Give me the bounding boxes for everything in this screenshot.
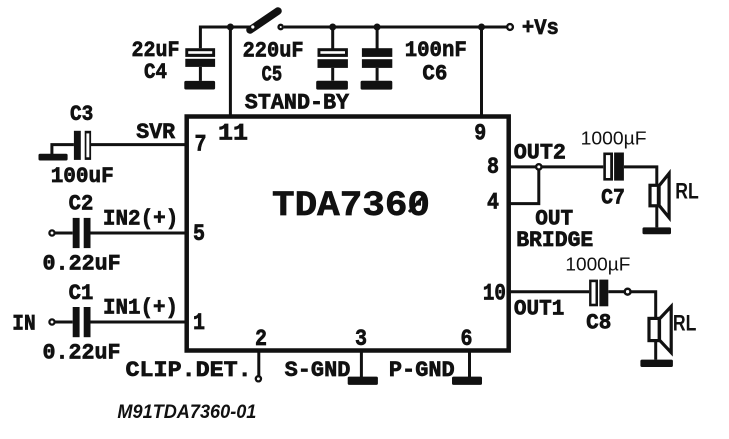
wire top rail right segment (switch to +Vs terminal)	[284, 26, 507, 29]
node OUT2 junction circle	[536, 164, 541, 169]
wire node to speaker RL2	[631, 292, 656, 360]
wire IN2 terminal to C2	[55, 232, 73, 235]
svg-text:C2: C2	[69, 192, 94, 217]
ground speaker RL2	[640, 360, 673, 367]
svg-text:6: 6	[461, 326, 473, 352]
svg-text:OUT2: OUT2	[514, 141, 566, 166]
node junction rail/C6	[374, 24, 381, 31]
svg-text:+Vs: +Vs	[522, 16, 559, 41]
svg-text:S-GND: S-GND	[285, 358, 351, 383]
label TDA7360	[272, 185, 430, 226]
speaker RL1	[650, 173, 669, 217]
wire pin 3 S-GND	[360, 350, 363, 377]
ground pin 3	[348, 377, 378, 385]
wire C6 from rail	[376, 27, 379, 49]
wire pin 6 P-GND	[468, 350, 471, 377]
wire pin 10 OUT1	[509, 290, 589, 293]
node OUT1 circle	[625, 289, 631, 295]
node IN2 terminal	[49, 230, 54, 235]
node junction rail/C4/pin11	[227, 24, 234, 31]
capacitor C8	[589, 280, 608, 307]
svg-text:11: 11	[218, 121, 248, 147]
wire C1 to pin 1	[91, 321, 188, 324]
svg-text:8: 8	[487, 154, 499, 180]
node IN1 terminal	[49, 319, 54, 324]
svg-text:IN2(+): IN2(+)	[103, 206, 178, 231]
svg-text:1: 1	[193, 310, 205, 336]
svg-text:IN1(+): IN1(+)	[103, 296, 178, 321]
node +Vs terminal	[507, 24, 513, 30]
svg-text:1000µF: 1000µF	[565, 254, 630, 275]
wire pin 2 CLIP.DET.	[257, 350, 260, 376]
capacitor C2	[73, 218, 91, 248]
svg-text:IN: IN	[12, 311, 35, 336]
svg-text:0.22uF: 0.22uF	[43, 252, 121, 277]
svg-text:C7: C7	[601, 185, 625, 210]
svg-text:CLIP.DET.: CLIP.DET.	[126, 358, 252, 383]
wire pin 4 to OUT2 node	[509, 167, 539, 204]
svg-text:220uF: 220uF	[243, 39, 304, 64]
svg-text:2: 2	[255, 326, 267, 352]
ground speaker RL1	[643, 227, 672, 234]
svg-text:C4: C4	[144, 60, 167, 85]
svg-text:7: 7	[195, 132, 207, 158]
wire C7 to speaker RL1	[624, 167, 657, 228]
wire C2 to pin 5	[91, 232, 188, 235]
svg-text:M91TDA7360-01: M91TDA7360-01	[117, 401, 256, 423]
speaker RL2	[649, 306, 671, 352]
svg-text:OUT1: OUT1	[514, 297, 564, 322]
svg-text:C5: C5	[262, 63, 283, 88]
svg-text:3: 3	[355, 326, 367, 352]
capacitor C6	[362, 48, 392, 80]
wire pin 9 from rail to IC top	[480, 27, 483, 116]
wire C5 from rail	[331, 27, 334, 49]
capacitor C4	[185, 48, 215, 81]
wire pin 11 from rail to IC top	[229, 27, 232, 116]
wire pin 7 SVR input	[91, 143, 187, 146]
svg-text:RL: RL	[673, 310, 697, 335]
svg-text:9: 9	[474, 121, 486, 147]
node junction rail/C5	[329, 24, 336, 31]
svg-text:10: 10	[483, 281, 506, 307]
svg-text:P-GND: P-GND	[389, 358, 455, 383]
svg-text:100nF: 100nF	[405, 38, 467, 63]
svg-text:BRIDGE: BRIDGE	[516, 228, 593, 253]
capacitor C7	[603, 153, 624, 181]
wire C8 to node	[608, 290, 624, 293]
svg-text:TDA7360: TDA7360	[272, 185, 430, 226]
capacitor C3	[74, 131, 91, 160]
wire C3 to ground	[52, 145, 74, 155]
op-amp U1 TDA7360 IC body	[187, 117, 509, 351]
ground C3	[39, 154, 68, 161]
node junction rail/pin9	[478, 24, 485, 31]
ground pin 6	[452, 377, 482, 385]
svg-text:C8: C8	[586, 311, 611, 336]
svg-text:1000µF: 1000µF	[581, 128, 647, 149]
svg-text:C6: C6	[422, 61, 447, 86]
capacitor C1	[73, 307, 91, 337]
wire pin 8 OUT2	[509, 165, 603, 168]
svg-text:5: 5	[193, 221, 205, 247]
svg-text:SVR: SVR	[136, 120, 176, 145]
svg-text:0.22uF: 0.22uF	[43, 341, 121, 366]
svg-text:STAND-BY: STAND-BY	[245, 91, 350, 116]
ground C4	[184, 81, 215, 90]
svg-text:100uF: 100uF	[51, 164, 114, 189]
capacitor C5	[318, 48, 348, 80]
node pin 2 test point	[256, 376, 261, 381]
svg-text:C3: C3	[70, 102, 93, 127]
svg-text:RL: RL	[675, 179, 699, 204]
wire top rail left segment (+Vs rail to switch)	[200, 27, 251, 48]
switch STAND-BY	[250, 11, 283, 30]
ground C6	[361, 81, 393, 90]
ground C5	[316, 81, 348, 90]
wire IN1 terminal to C1	[55, 321, 73, 324]
svg-text:C1: C1	[69, 281, 94, 306]
svg-text:4: 4	[487, 190, 499, 216]
